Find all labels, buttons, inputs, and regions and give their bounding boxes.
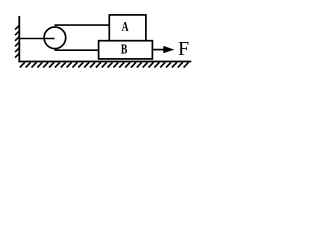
wall xyxy=(18,16,20,62)
svg-text:A: A xyxy=(122,19,129,34)
floor xyxy=(18,61,191,63)
svg-text:B: B xyxy=(121,42,128,57)
pulley xyxy=(44,27,66,49)
pulley axle xyxy=(19,38,54,40)
label A xyxy=(122,19,129,34)
force arrow head xyxy=(163,46,174,53)
block A xyxy=(109,15,146,41)
rope top strand xyxy=(55,24,111,26)
svg-text:F: F xyxy=(178,38,189,60)
label B xyxy=(121,42,128,57)
rope bottom strand xyxy=(55,49,100,51)
floor hatching xyxy=(20,62,189,67)
force arrow shaft xyxy=(152,49,164,51)
block B xyxy=(99,41,153,59)
wall hatching xyxy=(15,25,19,57)
